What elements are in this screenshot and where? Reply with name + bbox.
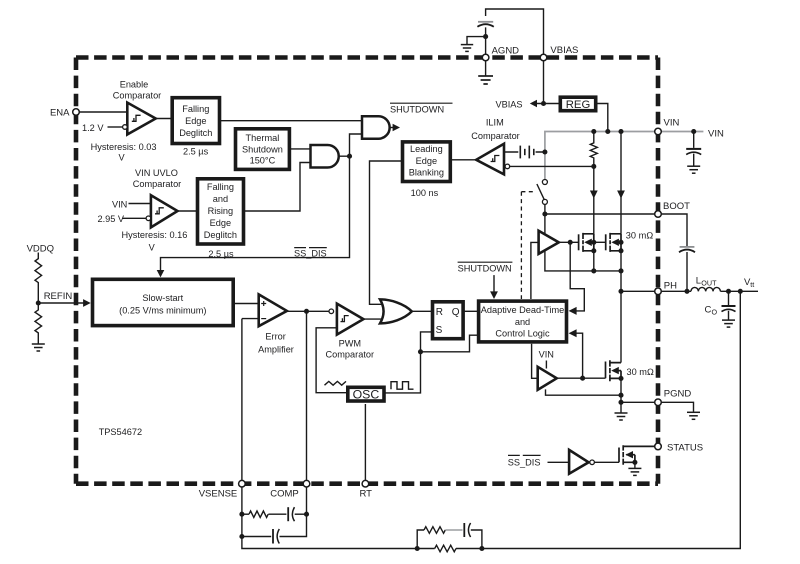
svg-text:VDDQ: VDDQ (27, 243, 54, 254)
node OSC branch (418, 349, 423, 354)
pin PGND (655, 399, 662, 406)
driver U8 low-side (538, 367, 557, 390)
wire dead-time box to low-side driver input (532, 344, 538, 379)
IC boundary dashed box (76, 58, 658, 484)
wire BOOT node into high-side driver (544, 214, 546, 236)
node high-side gate (568, 240, 573, 245)
svg-text:Shutdown: Shutdown (242, 144, 283, 154)
transistor Q3 low-side FET (606, 360, 622, 381)
wire 2.95V to bubble (123, 217, 147, 219)
bubble on enable comparator input (123, 125, 128, 130)
svg-text:PWM: PWM (339, 339, 361, 349)
node rail/FET2 drain (618, 129, 623, 134)
svg-text:R: R (436, 307, 443, 318)
ground below AGND (478, 76, 493, 84)
wire gate node to dead-time sense input (570, 242, 584, 311)
svg-text:Leading: Leading (410, 144, 443, 154)
upper RC branch (417, 530, 424, 549)
svg-text:STATUS: STATUS (667, 443, 703, 454)
wire ILIM comparator to LEB (451, 159, 476, 161)
wire UVLO comparator to deglitch2 (178, 210, 198, 212)
block Thermal Shutdown (236, 129, 290, 170)
wire SS_DIS to inverter (548, 461, 570, 463)
ground below CO (722, 320, 735, 327)
wire AND2 output node (161, 134, 363, 272)
comparator U2 VIN UVLO (151, 195, 178, 227)
pin AGND (482, 54, 489, 61)
svg-text:VSENSE: VSENSE (199, 489, 238, 500)
resistor divider lower (35, 303, 42, 344)
svg-text:2.5 µs: 2.5 µs (183, 146, 209, 156)
svg-text:L: L (696, 275, 701, 286)
comparator U1 Enable Comparator (127, 103, 155, 135)
ground below VIN cap (687, 166, 700, 173)
wire deglitch to AND1 (220, 120, 363, 122)
svg-text:VIN: VIN (708, 129, 724, 140)
wire gate node to dead-time sense input 2 (577, 333, 583, 378)
svg-text:2.95 V: 2.95 V (98, 214, 125, 224)
BOOT line (545, 213, 655, 215)
node rail/sense resistor (591, 129, 596, 134)
svg-text:OUT: OUT (701, 278, 717, 287)
wire deglitch2 to AND2 (244, 163, 312, 212)
svg-text:REG: REG (566, 99, 590, 111)
svg-text:PH: PH (664, 281, 677, 292)
pin VIN (655, 128, 662, 135)
sawtooth glyph (325, 381, 346, 385)
svg-text:30 mΩ: 30 mΩ (626, 230, 653, 240)
latch U7 RS (433, 302, 464, 339)
wire gate link FET A to FET B (594, 241, 606, 243)
pin VSENSE (239, 480, 246, 487)
svg-text:VBIAS: VBIAS (496, 99, 523, 109)
wire COMP pin external (306, 487, 308, 514)
svg-text:Comparator: Comparator (113, 90, 162, 100)
AND gate G2 (311, 145, 339, 168)
svg-text:VIN UVLO: VIN UVLO (135, 168, 178, 178)
VIN rail (gray) (545, 132, 704, 180)
svg-text:SHUTDOWN: SHUTDOWN (458, 263, 512, 273)
svg-text:V: V (119, 153, 126, 163)
wire status FET source to ground (634, 462, 636, 468)
block Leading Edge Blanking (403, 142, 451, 182)
svg-text:O: O (712, 307, 718, 316)
svg-text:Control Logic: Control Logic (495, 329, 550, 339)
boot capacitor (679, 247, 695, 252)
svg-text:100 ns: 100 ns (411, 188, 439, 198)
wire cap node to small ground (467, 37, 486, 45)
node at AGND cap (483, 34, 488, 39)
svg-text:BOOT: BOOT (663, 201, 690, 212)
wire BOOT pin to boot capacitor to PH (661, 214, 687, 291)
wire VSENSE to error amp inverting input (242, 319, 259, 481)
node feedback branch (738, 289, 743, 294)
dashed control link switch to dead-time logic (521, 192, 536, 299)
clock glyph (391, 382, 414, 390)
wire low-side driver output to gate (557, 377, 606, 379)
wire inverter to status FET gate (594, 461, 619, 463)
svg-text:SHUTDOWN: SHUTDOWN (390, 104, 444, 114)
wire low-side source to PGND (546, 378, 655, 412)
node battery/VIN branch (542, 149, 547, 154)
arrow into slow-start (157, 270, 165, 277)
block Falling Edge Deglitch (172, 98, 219, 144)
capacitor at AGND/VBIAS top (477, 22, 493, 27)
svg-text:VIN: VIN (664, 118, 680, 129)
svg-text:Adaptive Dead-Time: Adaptive Dead-Time (481, 305, 564, 315)
svg-text:SS_DIS: SS_DIS (294, 249, 327, 259)
node low-side gate (580, 376, 585, 381)
wire driver output to FET gates (559, 241, 579, 243)
node AND2 output (347, 154, 352, 159)
wire feedback from Vtt to bottom (242, 291, 740, 548)
wire ILIM top input to battery (504, 151, 545, 153)
pin COMP (303, 480, 310, 487)
svg-text:Blanking: Blanking (409, 168, 444, 178)
svg-text:150°C: 150°C (250, 156, 276, 166)
svg-text:tt: tt (750, 280, 754, 289)
switch (ILIM enable) (542, 180, 547, 185)
svg-text:VIN: VIN (539, 350, 554, 360)
svg-text:Comparator: Comparator (133, 179, 182, 189)
OR gate G3 (380, 299, 412, 323)
node REG/rail (605, 129, 610, 134)
feedback branch R+C (VSENSE to COMP) (242, 513, 249, 515)
wire PH external to inductor (661, 290, 691, 292)
node CO branch (726, 289, 731, 294)
svg-text:ENA: ENA (50, 108, 70, 119)
wire slow-start to error amp (233, 303, 259, 305)
arrow VBIAS (left) (530, 100, 537, 107)
wire VBIAS top net to AGND cap (486, 9, 544, 54)
pin STATUS (655, 443, 662, 450)
svg-text:C: C (705, 304, 712, 315)
ground below divider (32, 344, 45, 351)
inverter U9 status (569, 450, 589, 474)
capacitor CO (728, 291, 730, 319)
regulator REG box (560, 97, 595, 111)
wire dead-time box to high-side driver input (531, 242, 539, 299)
wire VBIAS node to REG (536, 103, 560, 105)
svg-text:REFIN: REFIN (44, 291, 73, 302)
wire OSC output to latch S (384, 332, 432, 393)
wire switch to BOOT node (544, 204, 546, 214)
wire PWM ramp input from OSC (316, 328, 348, 393)
svg-text:Thermal: Thermal (246, 133, 280, 143)
node BOOT (542, 211, 547, 216)
external VIN capacitor branch (693, 132, 695, 166)
wire resistor node down to FET1 drain (with arrow) (593, 166, 595, 233)
wire VBIAS pin down to VBIAS node (543, 61, 545, 104)
wire PH node vertical (620, 271, 622, 363)
svg-text:Q: Q (452, 307, 460, 318)
svg-text:Deglitch: Deglitch (179, 128, 212, 138)
wire latch Q to dead-time box (464, 310, 479, 312)
block Adaptive Dead-Time and Control Logic (479, 301, 567, 342)
svg-text:Edge: Edge (210, 218, 231, 228)
pin BOOT (655, 211, 662, 218)
wire enable comparator to deglitch (156, 118, 172, 120)
wire LEB output down to OR gate (370, 161, 403, 304)
wire PWM output to OR gate (363, 318, 382, 320)
battery reference symbol (520, 146, 534, 159)
node VBIAS (541, 101, 546, 106)
svg-text:30 mΩ: 30 mΩ (627, 367, 654, 377)
ground external PGND (687, 412, 700, 419)
svg-text:VBIAS: VBIAS (550, 45, 578, 56)
wire PH to pin (621, 290, 655, 292)
wire VSENSE external (241, 487, 243, 537)
wire error amp output to PWM comparator (287, 311, 329, 480)
svg-text:1.2 V: 1.2 V (82, 123, 104, 133)
wire thermal to AND2 (289, 148, 311, 150)
ground (top small) (461, 45, 473, 52)
transistor Q4 status FET (619, 445, 655, 465)
AND gate G1 (362, 116, 390, 139)
transistor Q1 high-side FET A (579, 233, 594, 252)
node resistor bottom (591, 164, 596, 169)
wire VIN rail down to FET2 drain (with arrow) (620, 132, 622, 234)
node REFIN (36, 300, 41, 305)
block Slow-start (93, 279, 234, 325)
svg-text:COMP: COMP (270, 489, 299, 500)
transistor Q2 high-side FET B (606, 233, 621, 252)
bubble inverter output (590, 460, 595, 465)
svg-text:V: V (149, 243, 156, 253)
svg-text:Falling: Falling (207, 182, 234, 192)
svg-text:Hysteresis: 0.03: Hysteresis: 0.03 (91, 142, 157, 152)
wire 1.2V to bubble (108, 126, 123, 128)
svg-text:Hysteresis: 0.16: Hysteresis: 0.16 (122, 230, 188, 240)
comparator U3 ILIM (476, 144, 504, 175)
svg-text:VIN: VIN (112, 199, 127, 209)
wire VIN stub to low-side driver (545, 361, 547, 369)
pin ENA (73, 109, 80, 116)
svg-text:OSC: OSC (353, 388, 380, 402)
svg-text:and: and (515, 317, 530, 327)
wire REG to VIN rail (596, 104, 608, 132)
svg-text:Edge: Edge (185, 116, 206, 126)
pin PH (655, 288, 662, 295)
svg-text:AGND: AGND (492, 46, 520, 57)
node COMP (304, 309, 309, 314)
inductor LOUT (691, 287, 720, 291)
svg-text:SS_DIS: SS_DIS (508, 457, 541, 467)
svg-text:ILIM: ILIM (486, 117, 504, 127)
svg-text:PGND: PGND (664, 388, 692, 399)
wire ILIM inverting input to sense resistor (510, 165, 594, 167)
wire OSC branch to dead-time box (421, 335, 479, 352)
ENA wire (79, 111, 127, 113)
driver U4 high-side (539, 231, 559, 254)
node boot cap / PH (684, 289, 689, 294)
svg-text:Rising: Rising (208, 206, 234, 216)
svg-text:S: S (436, 325, 443, 336)
block Falling and Rising Edge Deglitch (198, 179, 244, 244)
wire REFIN arrow into slow-start (38, 302, 83, 304)
wire high-side source rail (545, 251, 621, 271)
wire SHUTDOWN arrow into dead-time box (493, 275, 495, 293)
block OSC (348, 387, 384, 401)
pin RT (362, 480, 369, 487)
wire PGND pin to external ground (661, 402, 693, 412)
bubble on UVLO comparator input (146, 216, 151, 221)
node PH junction (618, 289, 623, 294)
svg-text:and: and (213, 194, 228, 204)
svg-text:Deglitch: Deglitch (204, 230, 237, 240)
pin VBIAS (540, 54, 547, 61)
resistor divider VDDQ upper (35, 253, 42, 304)
wire AGND pin to inner ground (485, 61, 487, 76)
wire VIN to UVLO comparator (129, 203, 151, 205)
svg-text:Error: Error (265, 332, 285, 342)
svg-text:(0.25 V/ms minimum): (0.25 V/ms minimum) (119, 305, 206, 315)
svg-text:Enable: Enable (120, 80, 149, 90)
svg-text:Amplifier: Amplifier (258, 345, 294, 355)
svg-text:Edge: Edge (416, 156, 437, 166)
wire inductor to Vtt (720, 290, 758, 292)
node external VIN (691, 129, 696, 134)
svg-text:Comparator: Comparator (326, 350, 375, 360)
comparator U6 PWM (337, 304, 364, 335)
ground below status FET (628, 468, 641, 475)
bubble ILIM inverting input (505, 164, 510, 169)
resistor bottom center (435, 545, 456, 552)
svg-text:RT: RT (359, 489, 372, 500)
ground below low-side FET (615, 413, 628, 420)
wire OSC to RT pin (364, 404, 366, 480)
svg-text:TPS54672: TPS54672 (99, 427, 142, 437)
bubble PWM comparator input (329, 309, 334, 314)
op-amp U5 Error Amplifier (259, 294, 287, 326)
wire OR to latch R (412, 310, 432, 312)
svg-text:Slow-start: Slow-start (142, 293, 183, 303)
wire AND1 output arrow (390, 127, 393, 129)
feedback branch C2 (242, 536, 271, 538)
sense resistor (590, 132, 597, 167)
svg-text:Falling: Falling (182, 104, 209, 114)
svg-text:Comparator: Comparator (471, 131, 520, 141)
